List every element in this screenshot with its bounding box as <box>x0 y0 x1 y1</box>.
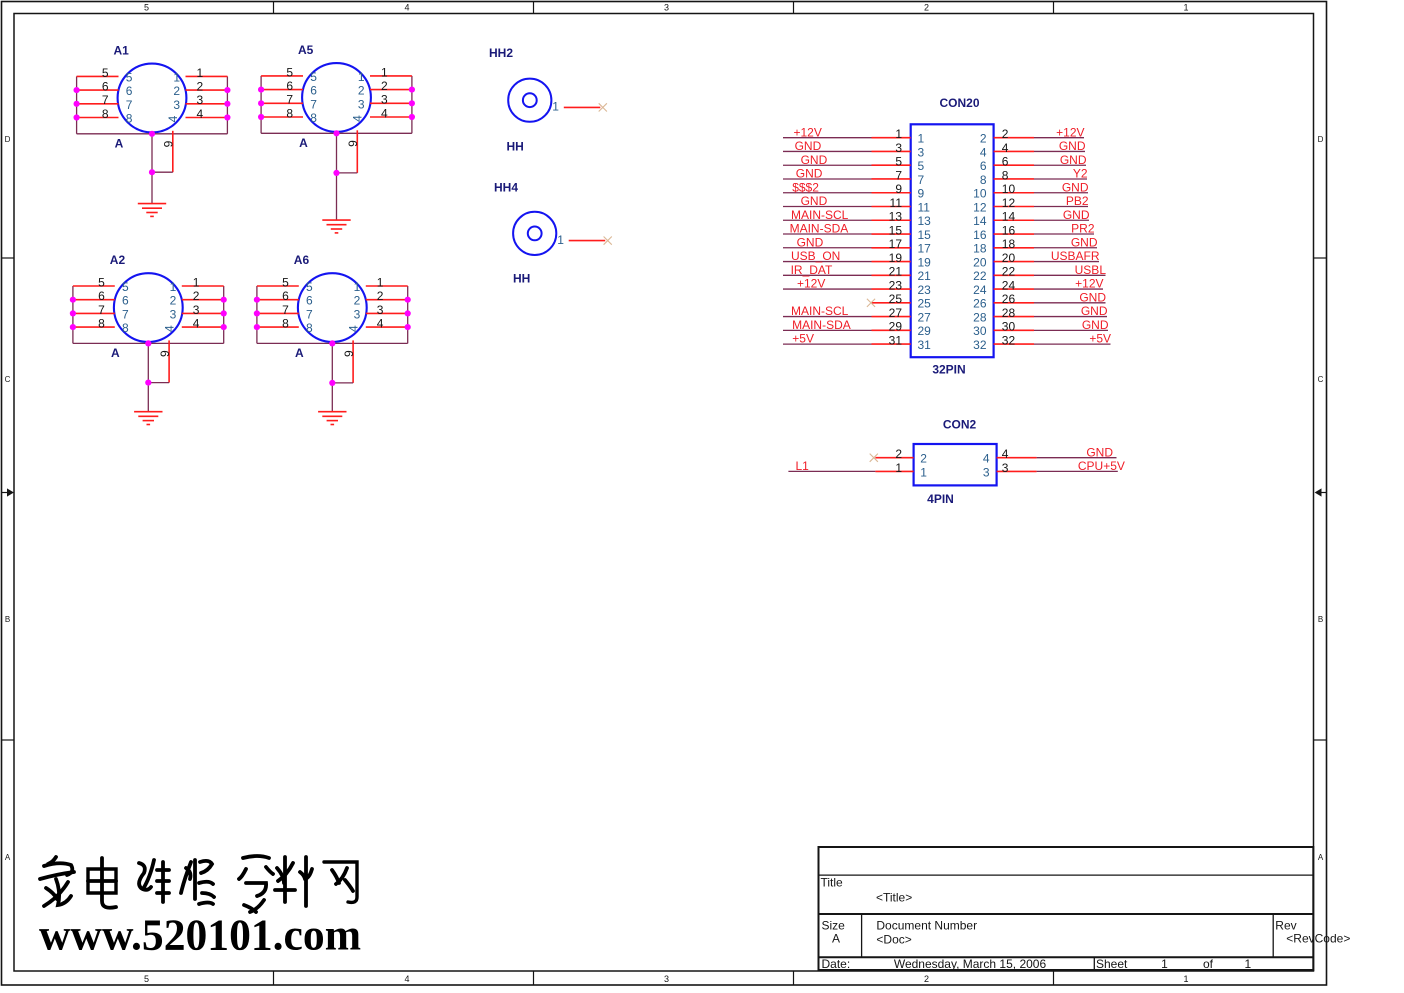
A5 pin 1 wire <box>370 75 412 77</box>
svg-text:8: 8 <box>286 106 293 120</box>
A5 pin 8 wire <box>261 116 303 118</box>
A2 ground stem wire <box>147 343 149 411</box>
net wire PR2 from pin 16 <box>1034 233 1094 235</box>
svg-text:1: 1 <box>1183 3 1188 13</box>
svg-text:1: 1 <box>1161 957 1168 971</box>
svg-text:4: 4 <box>1002 447 1009 461</box>
A2 junction at pin 9 wire <box>145 380 151 386</box>
svg-text:1: 1 <box>920 465 927 479</box>
no-connect X pin 2 <box>870 454 878 462</box>
CON2 symbol body <box>914 444 997 485</box>
svg-text:7: 7 <box>102 93 109 107</box>
svg-text:2: 2 <box>895 447 902 461</box>
svg-text:MAIN-SDA: MAIN-SDA <box>792 318 851 332</box>
svg-text:D: D <box>1318 135 1324 144</box>
A6 ground symbol <box>318 411 346 413</box>
svg-text:24: 24 <box>973 283 987 297</box>
A2 pin 8 wire <box>73 326 115 328</box>
svg-text:25: 25 <box>889 292 903 306</box>
A1 ground stem wire <box>151 134 153 204</box>
svg-text:A: A <box>115 137 124 151</box>
svg-text:2: 2 <box>197 80 204 94</box>
net wire +12V to pin 23 <box>783 288 872 290</box>
svg-text:20: 20 <box>973 255 987 269</box>
A6 symbol circle <box>298 273 367 342</box>
CON20 pin 18 stub <box>994 247 1034 249</box>
A5 ground stem wire <box>336 133 338 220</box>
svg-text:4: 4 <box>351 115 365 122</box>
svg-text:28: 28 <box>973 310 987 324</box>
svg-text:2: 2 <box>381 79 388 93</box>
A5 bottom bus wire <box>261 132 412 134</box>
net wire USBL from pin 22 <box>1034 274 1106 276</box>
net wire +5V from pin 32 <box>1034 343 1111 345</box>
net wire GND from pin 26 <box>1034 302 1106 304</box>
A6 pin 8 wire <box>257 326 299 328</box>
A1 pin 9 wire <box>172 131 174 172</box>
net wire GND to pin 5 <box>783 164 872 166</box>
svg-text:HH: HH <box>507 140 524 154</box>
net wire GND to pin 11 <box>783 206 872 208</box>
svg-text:CON20: CON20 <box>939 96 979 110</box>
A1 left bus wire <box>76 76 78 133</box>
svg-text:1: 1 <box>193 275 200 289</box>
svg-text:26: 26 <box>973 297 987 311</box>
CON2 pin 1 stub <box>875 470 913 472</box>
svg-text:14: 14 <box>1002 210 1016 224</box>
net wire GND from pin 18 <box>1034 247 1097 249</box>
svg-text:12: 12 <box>1002 196 1016 210</box>
A2 pin 9 wire <box>168 340 170 382</box>
svg-text:18: 18 <box>973 242 987 256</box>
connector CON20 <box>783 96 1111 377</box>
svg-text:A: A <box>295 346 304 360</box>
svg-text:4: 4 <box>162 325 176 332</box>
svg-text:9: 9 <box>342 350 356 357</box>
CON20 symbol body <box>911 124 994 357</box>
A2 pin 6 wire <box>73 299 115 301</box>
CON20 pin 11 stub <box>872 206 911 208</box>
A6 left bus wire <box>256 286 258 343</box>
CON20 pin 19 stub <box>872 261 911 263</box>
svg-text:8: 8 <box>282 317 289 331</box>
net wire GND from pin 28 <box>1034 316 1107 318</box>
svg-text:A: A <box>832 932 840 946</box>
CON20 pin 8 stub <box>994 178 1034 180</box>
svg-text:2: 2 <box>1002 127 1009 141</box>
net wire GND from pin 6 <box>1034 164 1086 166</box>
net wire GND from pin 4 <box>1034 150 1085 152</box>
A1 pin 7 wire <box>77 103 119 105</box>
CON20 pin 17 stub <box>872 247 911 249</box>
svg-text:4: 4 <box>404 3 409 13</box>
svg-text:28: 28 <box>1002 306 1016 320</box>
svg-text:2: 2 <box>920 452 927 466</box>
svg-text:1: 1 <box>354 280 361 294</box>
svg-text:6: 6 <box>310 84 317 98</box>
A6 pin 7 wire <box>257 312 299 314</box>
A2 pin 4 wire <box>182 326 224 328</box>
svg-text:30: 30 <box>1002 320 1016 334</box>
connector A1 <box>74 44 231 217</box>
svg-text:3: 3 <box>664 974 669 984</box>
net wire USB_ON to pin 19 <box>783 261 872 263</box>
CON20 pin 14 stub <box>994 219 1034 221</box>
CON20 pin 1 stub <box>872 137 911 139</box>
watermark: Chinese calligraphy (drawn strokes) <box>40 856 357 912</box>
connector CON2 <box>788 418 1125 506</box>
net wire GND from pin 10 <box>1034 192 1088 194</box>
A2 junction at bus <box>145 340 151 346</box>
svg-text:1: 1 <box>1183 974 1188 984</box>
svg-text:13: 13 <box>889 210 903 224</box>
CON20 pin 24 stub <box>994 288 1034 290</box>
svg-text:A: A <box>1318 853 1324 862</box>
net wire IR_DAT to pin 21 <box>783 274 872 276</box>
svg-text:A6: A6 <box>294 253 310 267</box>
svg-text:7: 7 <box>895 168 902 182</box>
A1 pin 3 wire <box>186 103 228 105</box>
mounting hole HH2 <box>489 46 607 154</box>
svg-text:3: 3 <box>918 145 925 159</box>
svg-text:3: 3 <box>358 97 365 111</box>
svg-text:4: 4 <box>166 115 180 122</box>
svg-text:6: 6 <box>102 80 109 94</box>
svg-text:21: 21 <box>889 265 903 279</box>
svg-text:4: 4 <box>377 317 384 331</box>
svg-text:10: 10 <box>973 187 987 201</box>
A6 junction at bus <box>329 340 335 346</box>
svg-text:+12V: +12V <box>797 277 825 291</box>
svg-text:Wednesday, March 15, 2006: Wednesday, March 15, 2006 <box>894 957 1047 971</box>
svg-text:C: C <box>5 375 11 384</box>
A1 pin 1 wire <box>186 75 228 77</box>
svg-text:<RevCode>: <RevCode> <box>1286 931 1350 945</box>
net wire GND from pin 30 <box>1034 329 1108 331</box>
A5 pin 3 wire <box>370 102 412 104</box>
svg-text:2: 2 <box>354 294 361 308</box>
net wire L1 to pin 1 <box>788 470 875 472</box>
net wire USBAFR from pin 20 <box>1034 261 1099 263</box>
svg-text:of: of <box>1203 957 1214 971</box>
A5 pin 5 wire <box>261 75 303 77</box>
svg-text:11: 11 <box>890 196 903 210</box>
svg-text:5: 5 <box>918 159 925 173</box>
svg-text:<Doc>: <Doc> <box>876 933 911 947</box>
svg-text:3: 3 <box>173 98 180 112</box>
svg-text:GND: GND <box>1062 180 1089 194</box>
svg-text:4: 4 <box>197 107 204 121</box>
A2 pin 2 wire <box>182 299 224 301</box>
svg-text:+12V: +12V <box>1056 125 1084 139</box>
svg-text:PR2: PR2 <box>1071 222 1095 236</box>
A6 bottom bus wire <box>257 342 408 344</box>
svg-text:10: 10 <box>1002 182 1016 196</box>
svg-text:7: 7 <box>286 93 293 107</box>
svg-text:GND: GND <box>1082 318 1109 332</box>
svg-text:27: 27 <box>918 310 932 324</box>
svg-text:MAIN-SCL: MAIN-SCL <box>791 208 849 222</box>
CON2 pin 4 stub <box>997 457 1037 459</box>
svg-text:CON2: CON2 <box>943 418 977 432</box>
svg-text:5: 5 <box>122 280 129 294</box>
net wire +12V to pin 1 <box>783 137 872 139</box>
A5 pin 6 wire <box>261 89 303 91</box>
connector A2 <box>70 253 227 424</box>
svg-text:13: 13 <box>918 214 932 228</box>
svg-text:8: 8 <box>306 321 313 335</box>
A2 pin 3 wire <box>182 312 224 314</box>
svg-text:IR_DAT: IR_DAT <box>791 263 833 277</box>
svg-text:16: 16 <box>973 228 987 242</box>
svg-text:1: 1 <box>377 275 384 289</box>
svg-text:21: 21 <box>918 269 932 283</box>
svg-text:32: 32 <box>973 338 987 352</box>
net wire GND to pin 17 <box>783 247 872 249</box>
A6 pin 2 wire <box>366 299 408 301</box>
svg-text:2: 2 <box>173 84 180 98</box>
svg-text:PB2: PB2 <box>1066 194 1089 208</box>
svg-text:2: 2 <box>358 84 365 98</box>
svg-text:2: 2 <box>980 132 987 146</box>
svg-text:7: 7 <box>310 97 317 111</box>
svg-text:17: 17 <box>918 242 932 256</box>
A6 ground stem wire <box>331 343 333 411</box>
svg-text:A1: A1 <box>114 44 130 58</box>
svg-text:1: 1 <box>557 233 564 247</box>
svg-text:20: 20 <box>1002 251 1016 265</box>
svg-text:3: 3 <box>983 465 990 479</box>
svg-text:+12V: +12V <box>1075 277 1103 291</box>
svg-text:7: 7 <box>126 98 133 112</box>
svg-text:8: 8 <box>980 173 987 187</box>
svg-text:3: 3 <box>170 307 177 321</box>
svg-text:www.520101.com: www.520101.com <box>39 910 361 960</box>
svg-text:5: 5 <box>98 275 105 289</box>
svg-text:6: 6 <box>1002 155 1009 169</box>
CON20 pin 21 stub <box>872 274 911 276</box>
svg-text:8: 8 <box>1002 168 1009 182</box>
svg-text:MAIN-SCL: MAIN-SCL <box>791 304 849 318</box>
CON20 pin 5 stub <box>872 164 911 166</box>
svg-text:GND: GND <box>1060 153 1087 167</box>
svg-text:5: 5 <box>286 65 293 79</box>
svg-text:6: 6 <box>282 289 289 303</box>
svg-text:12: 12 <box>973 200 987 214</box>
svg-text:1: 1 <box>358 70 365 84</box>
svg-text:2: 2 <box>193 289 200 303</box>
svg-text:11: 11 <box>918 200 931 214</box>
svg-text:1: 1 <box>895 127 902 141</box>
svg-text:GND: GND <box>1079 290 1106 304</box>
CON20 pin 23 stub <box>872 288 911 290</box>
svg-text:16: 16 <box>1002 223 1016 237</box>
A5 bus junctions <box>258 87 264 93</box>
no-connect X pin 25 <box>867 299 875 307</box>
A5 pin 2 wire <box>370 89 412 91</box>
svg-text:27: 27 <box>889 306 903 320</box>
svg-text:3: 3 <box>895 141 902 155</box>
svg-text:6: 6 <box>122 294 129 308</box>
HH2 inner circle <box>523 93 537 107</box>
svg-text:HH4: HH4 <box>494 181 518 195</box>
svg-text:7: 7 <box>306 307 313 321</box>
svg-text:3: 3 <box>381 93 388 107</box>
svg-text:26: 26 <box>1002 292 1016 306</box>
A1 pin 8 wire <box>77 117 119 119</box>
A2 right bus wire <box>223 286 225 343</box>
zone tick marks <box>273 2 275 14</box>
CON20 pin 32 stub <box>994 343 1034 345</box>
svg-text:4: 4 <box>980 145 987 159</box>
CON20 pin 26 stub <box>994 302 1034 304</box>
A6 pin 1 wire <box>366 285 408 287</box>
svg-text:4: 4 <box>404 974 409 984</box>
A6 pin 3 wire <box>366 312 408 314</box>
svg-text:CPU+5V: CPU+5V <box>1078 459 1125 473</box>
net wire +12V from pin 2 <box>1034 137 1084 139</box>
svg-text:3: 3 <box>664 3 669 13</box>
svg-text:5: 5 <box>306 280 313 294</box>
svg-text:25: 25 <box>918 297 932 311</box>
svg-text:7: 7 <box>918 173 925 187</box>
svg-text:$$$2: $$$2 <box>792 180 819 194</box>
svg-text:2: 2 <box>377 289 384 303</box>
A5 left bus wire <box>260 76 262 133</box>
svg-text:GND: GND <box>1071 235 1098 249</box>
mounting hole HH4 <box>494 181 612 286</box>
svg-text:HH: HH <box>513 272 530 286</box>
svg-text:7: 7 <box>98 303 105 317</box>
net wire MAIN-SDA to pin 29 <box>783 329 872 331</box>
svg-text:A: A <box>111 346 120 360</box>
svg-text:23: 23 <box>889 278 903 292</box>
svg-text:19: 19 <box>918 255 932 269</box>
svg-text:GND: GND <box>1081 304 1108 318</box>
svg-text:8: 8 <box>122 321 129 335</box>
svg-text:31: 31 <box>918 338 932 352</box>
net wire PB2 from pin 12 <box>1034 206 1088 208</box>
net wire CPU+5V from pin 3 <box>1037 470 1118 472</box>
svg-text:3: 3 <box>377 303 384 317</box>
A1 pin 2 wire <box>186 89 228 91</box>
svg-text:1: 1 <box>197 66 204 80</box>
HH4 no-connect X <box>604 237 612 245</box>
CON20 pin 15 stub <box>872 233 911 235</box>
svg-text:C: C <box>1318 375 1324 384</box>
svg-text:5: 5 <box>144 3 149 13</box>
net wire GND to pin 3 <box>783 150 872 152</box>
CON20 pin 16 stub <box>994 233 1034 235</box>
net wire $$$2 to pin 9 <box>783 192 872 194</box>
net wire +5V to pin 31 <box>783 343 872 345</box>
A5 ground symbol <box>322 219 350 221</box>
A5 pin 4 wire <box>370 116 412 118</box>
A6 bus junctions <box>254 297 260 303</box>
CON20 pin 12 stub <box>994 206 1034 208</box>
svg-text:29: 29 <box>918 324 932 338</box>
A1 junction at bus <box>149 131 155 137</box>
CON20 pin 27 stub <box>872 316 911 318</box>
svg-text:USB_ON: USB_ON <box>791 249 840 263</box>
svg-text:4PIN: 4PIN <box>927 492 954 506</box>
CON20 pin 3 stub <box>872 150 911 152</box>
svg-text:15: 15 <box>889 223 903 237</box>
svg-text:Document Number: Document Number <box>876 919 977 933</box>
svg-text:Sheet: Sheet <box>1096 957 1128 971</box>
svg-text:1: 1 <box>1244 957 1251 971</box>
CON20 pin 29 stub <box>872 329 911 331</box>
svg-text:3: 3 <box>197 93 204 107</box>
svg-text:GND: GND <box>1063 208 1090 222</box>
CON20 pin 31 stub <box>872 343 911 345</box>
svg-text:A2: A2 <box>110 253 126 267</box>
svg-text:30: 30 <box>973 324 987 338</box>
A1 bottom bus wire <box>77 133 228 135</box>
CON20 pin 2 stub <box>994 137 1034 139</box>
A2 pin 1 wire <box>182 285 224 287</box>
title block <box>819 847 1351 971</box>
svg-text:5: 5 <box>126 70 133 84</box>
svg-text:Date:: Date: <box>822 957 851 971</box>
svg-text:USBL: USBL <box>1075 263 1107 277</box>
svg-text:8: 8 <box>310 111 317 125</box>
A5 pin 7 wire <box>261 102 303 104</box>
A1 symbol circle <box>118 64 187 133</box>
svg-text:22: 22 <box>973 269 987 283</box>
svg-text:9: 9 <box>918 187 925 201</box>
CON20 pin 30 stub <box>994 329 1034 331</box>
A2 symbol circle <box>114 273 183 342</box>
svg-text:2: 2 <box>924 3 929 13</box>
svg-text:2: 2 <box>924 974 929 984</box>
A6 junction at pin 9 wire <box>329 380 335 386</box>
svg-text:1: 1 <box>918 132 925 146</box>
svg-text:3: 3 <box>354 307 361 321</box>
svg-text:18: 18 <box>1002 237 1016 251</box>
svg-text:Title: Title <box>821 876 844 890</box>
svg-text:5: 5 <box>310 70 317 84</box>
svg-text:9: 9 <box>158 350 172 357</box>
svg-text:4: 4 <box>983 452 990 466</box>
HH4 pin 1 wire <box>569 240 606 242</box>
CON20 pin 6 stub <box>994 164 1034 166</box>
svg-text:MAIN-SDA: MAIN-SDA <box>790 222 849 236</box>
CON20 pin 20 stub <box>994 261 1034 263</box>
svg-text:D: D <box>5 135 11 144</box>
svg-text:5: 5 <box>895 155 902 169</box>
CON20 pin 7 stub <box>872 178 911 180</box>
A2 ground symbol <box>134 411 162 413</box>
svg-text:L1: L1 <box>796 459 810 473</box>
svg-text:31: 31 <box>889 334 903 348</box>
svg-text:USBAFR: USBAFR <box>1051 249 1100 263</box>
svg-text:GND: GND <box>1086 445 1113 459</box>
svg-text:GND: GND <box>801 153 828 167</box>
A2 left bus wire <box>72 286 74 343</box>
svg-text:A: A <box>5 853 11 862</box>
A6 wire to pin 9 <box>332 382 353 384</box>
connector A5 <box>258 43 415 233</box>
frame center marker right <box>1322 492 1328 494</box>
A6 right bus wire <box>407 286 409 343</box>
svg-text:<Title>: <Title> <box>876 891 912 905</box>
net wire GND to pin 7 <box>783 178 872 180</box>
A2 pin 7 wire <box>73 312 115 314</box>
svg-text:A: A <box>299 136 308 150</box>
svg-text:24: 24 <box>1002 278 1016 292</box>
svg-text:A5: A5 <box>298 43 314 57</box>
